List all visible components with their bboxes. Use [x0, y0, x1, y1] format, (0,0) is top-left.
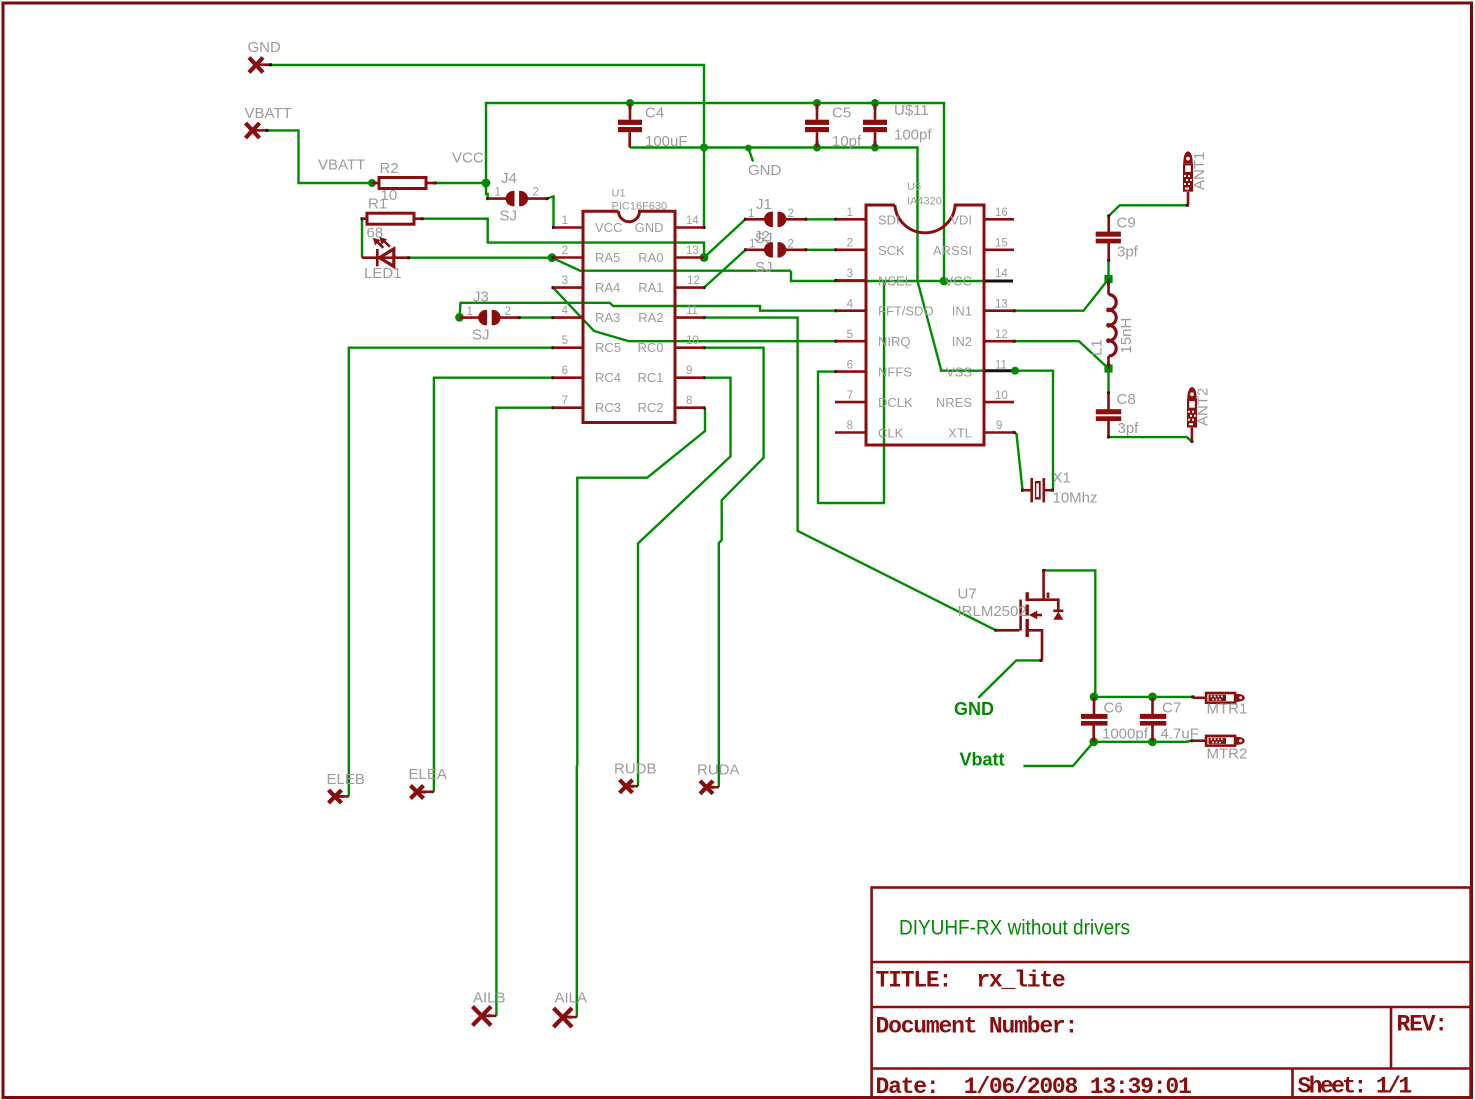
svg-text:C8: C8 — [1117, 391, 1136, 408]
node junction C5 bottom — [813, 144, 821, 152]
svg-text:13: 13 — [686, 245, 699, 257]
node junction GND label stub — [745, 145, 752, 152]
IC U6 IA4320 body — [866, 205, 984, 445]
wire VBATT pad to R2 — [267, 130, 372, 183]
svg-text:GND: GND — [635, 220, 664, 235]
svg-text:3pf: 3pf — [1117, 244, 1139, 261]
capacitor C8 — [1096, 393, 1121, 437]
U1 pin 13 — [675, 256, 704, 259]
title block divider TITLE row — [872, 961, 1471, 964]
wire U1 pin6 RC4 to ELEA pad — [434, 378, 553, 792]
svg-text:RUDB: RUDB — [614, 761, 657, 778]
node junction C6 bottom — [1089, 737, 1098, 746]
pad RUDB — [620, 780, 639, 793]
wire Vbatt label to C6/C7 bottom rail and MTR2 — [1023, 741, 1192, 766]
U6 pin 9 — [984, 431, 1014, 434]
svg-text:U$11: U$11 — [894, 102, 929, 119]
wire U1 pin3 diagonals to U6 NIRQ — [553, 288, 836, 342]
svg-text:MTR1: MTR1 — [1207, 701, 1248, 718]
svg-text:10Mhz: 10Mhz — [1053, 490, 1098, 507]
node junction J3 pin1 — [455, 313, 464, 322]
U1 pin 3 — [553, 286, 583, 289]
crystal X1 10Mhz — [1023, 478, 1054, 502]
svg-text:GND: GND — [748, 162, 782, 179]
svg-text:1: 1 — [749, 239, 755, 251]
svg-text:SCK: SCK — [878, 243, 905, 258]
svg-text:SJ: SJ — [500, 208, 518, 225]
svg-text:11: 11 — [995, 359, 1007, 371]
svg-text:DCLK: DCLK — [878, 395, 913, 410]
solder jumper J3 — [460, 310, 520, 325]
svg-text:CLK: CLK — [878, 426, 904, 441]
node junction U$11 bottom — [871, 144, 879, 152]
svg-text:9: 9 — [996, 420, 1002, 432]
U6 pin 5 — [836, 340, 866, 343]
U1 pin 10 — [675, 346, 704, 349]
U1 pin numbers left — [562, 215, 569, 407]
svg-text:3: 3 — [562, 275, 568, 287]
svg-text:1: 1 — [562, 215, 568, 227]
svg-text:3: 3 — [847, 268, 853, 280]
capacitor C6 — [1081, 697, 1108, 742]
node junction C4 top — [626, 99, 634, 107]
wire U1 pin9 RC1 to RUDB pad — [638, 378, 731, 787]
svg-text:16: 16 — [995, 207, 1008, 219]
wire R2 right to VCC junction — [435, 182, 486, 184]
node junction C7 bottom — [1148, 737, 1157, 746]
svg-text:NRES: NRES — [936, 395, 972, 410]
pad ELEB — [329, 790, 349, 803]
resistor R2 — [372, 178, 435, 189]
svg-text:SJ: SJ — [472, 327, 490, 344]
U1 pin numbers right — [686, 215, 700, 407]
svg-text:RC5: RC5 — [595, 340, 621, 355]
svg-text:14: 14 — [995, 268, 1008, 280]
U6 pin 4 — [836, 309, 866, 312]
U1 pin 9 — [675, 376, 704, 379]
svg-text:13: 13 — [995, 299, 1008, 311]
U6 pin 2 — [836, 249, 866, 252]
capacitor C9 — [1096, 216, 1121, 260]
svg-text:2: 2 — [847, 238, 853, 250]
wire U1 pin13 diagonal to J1 pin1 — [704, 219, 745, 257]
svg-text:2: 2 — [562, 245, 568, 257]
wire black overlap on U6 pin11 stub — [984, 369, 1013, 372]
connector MTR2 — [1192, 736, 1245, 746]
capacitor C4 — [618, 103, 642, 148]
U6 pin 1 — [836, 218, 866, 221]
U6 pin 3 — [836, 279, 866, 282]
svg-text:FFT/SDO: FFT/SDO — [878, 304, 934, 319]
capacitor C5 — [805, 103, 829, 148]
U1 pin 1 — [553, 226, 583, 229]
svg-text:RA2: RA2 — [638, 310, 663, 325]
svg-text:IRLM2502: IRLM2502 — [958, 603, 1027, 620]
U6 pin names left — [878, 212, 934, 440]
antenna ANT1 — [1183, 151, 1193, 205]
svg-text:12: 12 — [995, 329, 1008, 341]
svg-text:SDI: SDI — [878, 212, 900, 227]
svg-text:IA4320: IA4320 — [907, 196, 942, 208]
U1 pin 14 — [675, 226, 704, 229]
U1 pin 6 — [553, 376, 583, 379]
svg-text:U7: U7 — [958, 586, 977, 603]
svg-text:VSS: VSS — [946, 365, 972, 380]
svg-text:NFFS: NFFS — [878, 365, 912, 380]
svg-text:RA1: RA1 — [638, 280, 663, 295]
node junction GND rail / U1 pin14 drop — [700, 144, 708, 152]
wire NSEL to VCC row through U6 — [791, 271, 983, 281]
U6 pin 12 — [984, 340, 1014, 343]
U6 pin 13 — [984, 309, 1014, 312]
wire RA5 diagonal to U6 NSEL — [552, 258, 791, 271]
wire black overlap on U6 pin14 stub — [984, 280, 1013, 283]
svg-text:C4: C4 — [645, 105, 664, 122]
wire U1 pin7 RC3 to AILB pad — [496, 408, 553, 1016]
svg-text:7: 7 — [847, 390, 853, 402]
U1 pin names right — [635, 220, 664, 415]
svg-text:Sheet: 1/1: Sheet: 1/1 — [1298, 1074, 1412, 1100]
svg-text:IN1: IN1 — [952, 304, 972, 319]
inductor L1 — [1106, 279, 1116, 369]
wire J3 pin1 up and across to U6 FFT/SDO — [460, 303, 837, 318]
svg-text:VCC: VCC — [945, 273, 972, 288]
svg-text:6: 6 — [847, 359, 853, 371]
U6 pin 10 — [984, 401, 1014, 404]
capacitor U$11 — [863, 103, 887, 148]
svg-text:3pf: 3pf — [1118, 420, 1140, 437]
wire U6 IN1 to L1 top — [1014, 279, 1109, 311]
svg-text:7: 7 — [562, 395, 568, 407]
svg-text:RUDA: RUDA — [697, 762, 740, 779]
svg-text:C5: C5 — [832, 105, 851, 122]
svg-text:L1: L1 — [1089, 339, 1106, 356]
LED LED1 — [362, 237, 409, 267]
wire R1 left down to LED1 anode — [361, 219, 363, 258]
svg-text:TITLE: rx_lite: TITLE: rx_lite — [876, 968, 1065, 994]
wire J3 pin2 to U1 pin4 — [519, 316, 553, 318]
svg-text:10: 10 — [686, 335, 699, 347]
svg-text:RC3: RC3 — [595, 400, 621, 415]
pad RUDA — [700, 781, 719, 794]
svg-text:ANT2: ANT2 — [1195, 388, 1212, 426]
svg-text:MTR2: MTR2 — [1207, 746, 1248, 763]
svg-text:RC2: RC2 — [637, 400, 663, 415]
wire VCC rail from R2 junction up and across to U6 VCC — [486, 103, 944, 281]
node junction U1 pin13 — [700, 253, 709, 262]
U6 pin numbers left — [847, 207, 854, 432]
node junction VSS pin end — [1011, 367, 1019, 375]
svg-text:VCC: VCC — [452, 150, 484, 167]
svg-text:SJ: SJ — [755, 259, 773, 276]
capacitor C7 — [1140, 697, 1167, 742]
svg-text:RC0: RC0 — [637, 340, 663, 355]
wire NFFS tie down-around to VCC row — [818, 282, 884, 504]
svg-text:8: 8 — [847, 420, 853, 432]
U1 pin 12 — [675, 286, 704, 289]
svg-text:14: 14 — [686, 215, 699, 227]
svg-text:U6: U6 — [907, 181, 921, 193]
svg-text:15nH: 15nH — [1118, 318, 1135, 354]
svg-text:NSEL: NSEL — [878, 273, 912, 288]
svg-text:68: 68 — [367, 225, 384, 242]
svg-text:12: 12 — [687, 275, 700, 287]
svg-text:C9: C9 — [1117, 215, 1136, 232]
svg-text:RC4: RC4 — [595, 370, 621, 385]
svg-text:RA5: RA5 — [595, 250, 620, 265]
transistor U7 IRLM2502 n-mosfet — [996, 570, 1063, 660]
solder jumper J4 — [488, 191, 547, 206]
svg-text:VDI: VDI — [950, 212, 972, 227]
node junction VCC drop on pin14 row — [940, 277, 949, 286]
svg-text:VBATT: VBATT — [318, 157, 365, 174]
pad ELEA — [411, 786, 434, 799]
svg-text:1: 1 — [748, 208, 754, 220]
svg-text:LED1: LED1 — [364, 265, 402, 282]
svg-text:10: 10 — [995, 390, 1008, 402]
node junction C5 top — [813, 99, 821, 107]
svg-text:R2: R2 — [380, 160, 399, 177]
U1 pin 7 — [553, 406, 583, 409]
U1 pin 4 — [553, 316, 583, 319]
svg-text:8: 8 — [686, 395, 692, 407]
svg-text:VCC: VCC — [595, 220, 622, 235]
svg-text:XTL: XTL — [948, 426, 972, 441]
svg-text:15: 15 — [995, 238, 1008, 250]
U6 pin 6 — [836, 370, 866, 373]
node junction U$11 top — [871, 99, 879, 107]
wire U1 pin11 RA2 down to U7 gate — [704, 318, 996, 631]
svg-text:Vbatt: Vbatt — [960, 750, 1005, 770]
wire LED1 cathode to U1 pin2 — [409, 257, 552, 259]
svg-text:2: 2 — [788, 239, 794, 251]
svg-text:4.7uF: 4.7uF — [1161, 726, 1199, 743]
svg-text:5: 5 — [562, 335, 568, 347]
svg-text:ANT1: ANT1 — [1191, 152, 1208, 190]
svg-text:1: 1 — [495, 187, 501, 199]
svg-text:C7: C7 — [1162, 700, 1181, 717]
svg-text:Date: 1/06/2008 13:39:01: Date: 1/06/2008 13:39:01 — [876, 1074, 1191, 1100]
wire U1 pin5 RC5 to ELEB pad — [349, 348, 553, 797]
svg-text:AILA: AILA — [555, 990, 588, 1007]
node junction C7 top — [1148, 693, 1157, 702]
pad AILA — [554, 1008, 577, 1027]
wire U7 source to GND label — [978, 660, 1042, 698]
antenna ANT2 — [1187, 387, 1197, 442]
svg-text:DIYUHF-RX without drivers: DIYUHF-RX without drivers — [899, 917, 1130, 940]
svg-text:RA0: RA0 — [638, 250, 663, 265]
svg-text:GND: GND — [954, 699, 994, 719]
svg-text:GND: GND — [248, 39, 282, 56]
svg-text:2: 2 — [505, 306, 511, 318]
U1 pin 11 — [675, 316, 704, 319]
svg-text:PIC16F630: PIC16F630 — [612, 201, 668, 213]
wire GND top rail from GND pad to U1 pin14 — [265, 65, 704, 228]
wire J1 pin2 to U6 SDI — [806, 218, 836, 220]
supply pad VBATT — [246, 123, 266, 138]
svg-text:C6: C6 — [1104, 700, 1123, 717]
svg-text:1: 1 — [847, 207, 853, 219]
U6 pin 7 — [835, 401, 866, 404]
svg-text:X1: X1 — [1053, 470, 1071, 487]
U1 pin names left — [595, 220, 622, 415]
wire C6/C7 top rail to MTR1 — [1094, 696, 1193, 698]
svg-text:Document Number:: Document Number: — [876, 1014, 1078, 1040]
ground pad GND (top left) — [249, 58, 269, 73]
svg-text:NIRQ: NIRQ — [878, 334, 911, 349]
U6 pin numbers right — [995, 207, 1008, 432]
wire VCC junction to J4 pin1 — [486, 183, 488, 199]
svg-text:100uF: 100uF — [645, 133, 688, 150]
svg-text:10pf: 10pf — [832, 133, 862, 150]
svg-text:R1: R1 — [368, 196, 387, 213]
node junction R2 left — [368, 179, 376, 187]
svg-text:ELEB: ELEB — [327, 771, 365, 788]
wire U1 pin10 RC0 to RUDA pad — [704, 348, 764, 788]
title block outline — [872, 888, 1471, 1098]
wire C9 top to ANT1 — [1109, 205, 1188, 216]
IC U1 PIC16F630 body — [583, 211, 675, 422]
wire GND bottom rail C4-C5-U$11 to U6 VSS and X1 — [630, 148, 983, 371]
svg-text:9: 9 — [686, 365, 692, 377]
U6 pin 16 — [984, 218, 1014, 221]
wire GND label leader — [748, 148, 753, 162]
svg-text:ELEA: ELEA — [409, 766, 447, 783]
wire U1 pin12 diagonal to J2 pin1 — [704, 250, 746, 288]
solder jumper J2 — [746, 242, 806, 257]
node junction L1 top — [1104, 275, 1112, 283]
solder jumper J1 — [745, 212, 805, 227]
wire J2 pin2 to U6 SCK — [806, 249, 836, 251]
title block divider Document row — [872, 1006, 1471, 1009]
svg-text:2: 2 — [533, 187, 539, 199]
node junction U1 pin2 — [548, 253, 557, 262]
svg-text:J4: J4 — [501, 170, 517, 187]
node junction L1 bottom — [1104, 364, 1112, 372]
connector MTR1 — [1193, 693, 1245, 703]
wire J4 pin2 to U1 pin1 — [547, 196, 554, 227]
node junction VCC/R2 — [482, 179, 491, 188]
resistor R1 — [362, 213, 422, 224]
U6 pin names right — [933, 212, 972, 440]
svg-text:VBATT: VBATT — [245, 105, 292, 122]
svg-text:RC1: RC1 — [637, 370, 663, 385]
wire L1 top to C9 bottom — [1107, 260, 1109, 279]
svg-text:2: 2 — [788, 208, 794, 220]
svg-text:RA4: RA4 — [595, 280, 620, 295]
svg-text:6: 6 — [562, 365, 568, 377]
svg-text:1000pf: 1000pf — [1102, 726, 1149, 743]
svg-text:ARSSI: ARSSI — [933, 243, 972, 258]
title block divider REV cell — [1390, 1007, 1393, 1069]
U1 pin 5 — [553, 346, 583, 349]
svg-text:1: 1 — [467, 306, 473, 318]
wire R1 right to U1 pin13 (RA0) — [422, 219, 704, 258]
U6 pin 8 — [835, 431, 866, 434]
svg-text:J1: J1 — [756, 196, 772, 213]
wire C8 bottom to ANT2 — [1109, 437, 1192, 442]
svg-text:5: 5 — [847, 329, 853, 341]
svg-text:AILB: AILB — [473, 990, 506, 1007]
wire-pin junction ticks — [267, 65, 1193, 1017]
wire L1 bottom to C8 top — [1107, 369, 1109, 394]
node junction C6 top — [1090, 693, 1099, 702]
svg-text:11: 11 — [686, 305, 698, 317]
wire U6 XTL pin9 to X1 — [1014, 433, 1023, 490]
svg-text:4: 4 — [847, 299, 854, 311]
wire U7 drain up over to C6 top rail — [1044, 570, 1096, 697]
svg-text:REV:: REV: — [1397, 1012, 1447, 1038]
svg-text:IN2: IN2 — [952, 334, 972, 349]
svg-text:J3: J3 — [473, 289, 489, 306]
svg-text:U1: U1 — [612, 188, 626, 200]
wire VSS to X1 right lead — [1015, 371, 1054, 491]
wire U1 pin8 RC2 to AILA pad — [577, 408, 705, 1017]
U1 pin 2 — [553, 256, 583, 259]
svg-text:100pf: 100pf — [894, 127, 932, 144]
svg-text:SJ: SJ — [755, 230, 773, 247]
title block divider Date row — [872, 1067, 1471, 1070]
wire U6 IN2 to L1 bottom — [1014, 341, 1109, 368]
U1 pin 8 — [675, 406, 704, 409]
svg-text:4: 4 — [562, 305, 569, 317]
title block divider Sheet cell — [1291, 1069, 1294, 1098]
pad AILB — [473, 1007, 497, 1026]
U6 pin 15 — [984, 249, 1014, 252]
svg-text:RA3: RA3 — [595, 310, 620, 325]
